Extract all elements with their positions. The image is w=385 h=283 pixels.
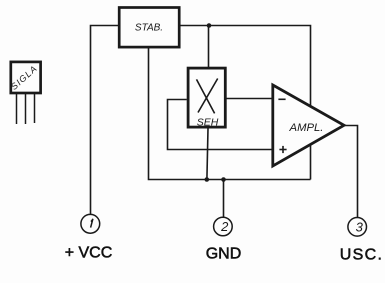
svg-text:SEH: SEH: [197, 117, 219, 129]
svg-text:STAB.: STAB.: [135, 23, 163, 34]
svg-text:3: 3: [356, 219, 364, 234]
svg-text:2: 2: [220, 219, 229, 234]
svg-text:+ VCC: + VCC: [65, 245, 113, 262]
svg-text:GND: GND: [206, 246, 242, 263]
svg-text:USC.: USC.: [340, 247, 383, 264]
svg-text:AMPL.: AMPL.: [289, 122, 324, 134]
